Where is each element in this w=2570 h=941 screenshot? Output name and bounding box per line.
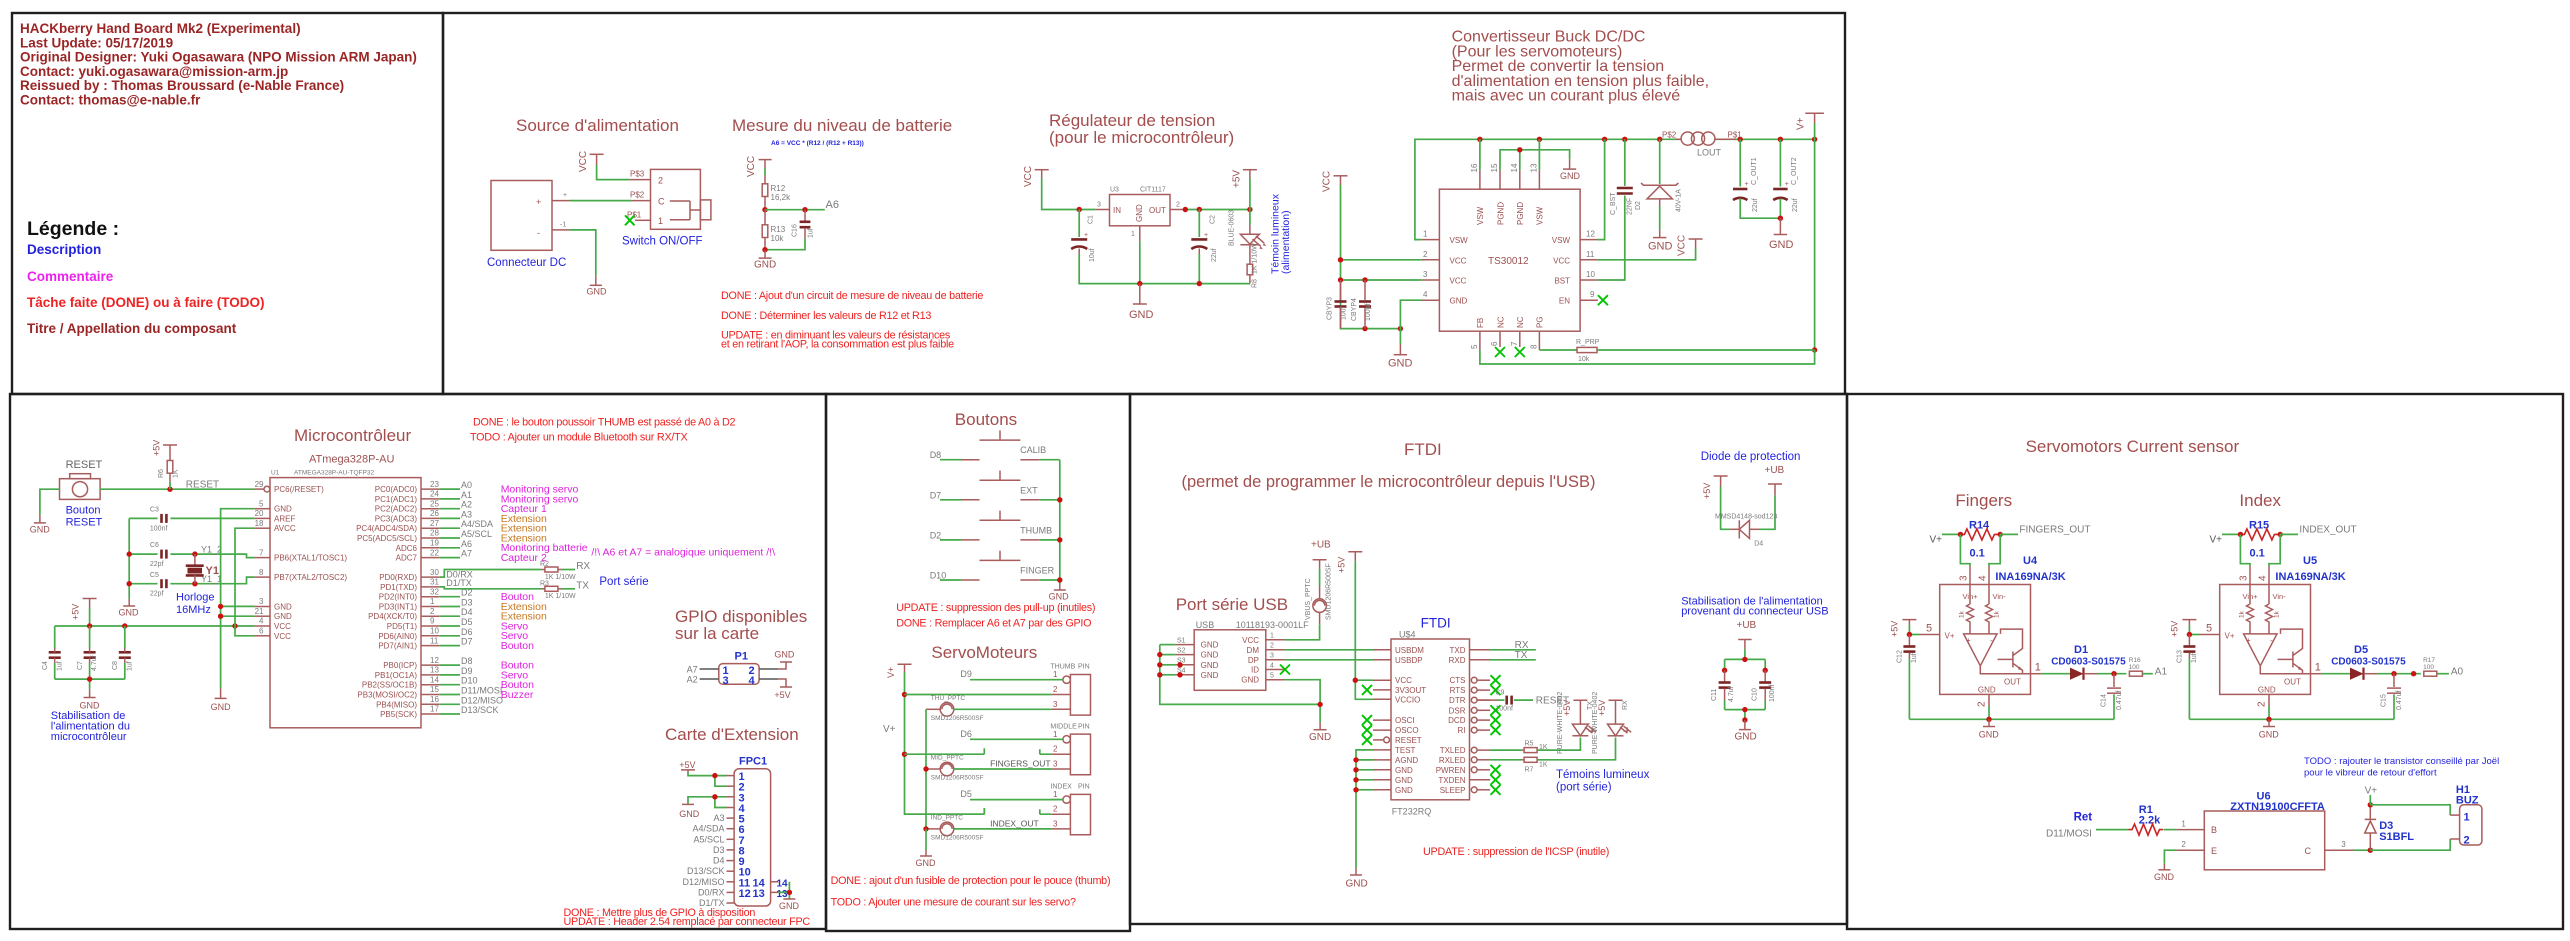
- svg-text:PC3(ADC3): PC3(ADC3): [375, 514, 418, 523]
- wire button to GND: [40, 489, 60, 514]
- legend: [27, 218, 265, 336]
- wire DP to USBDP: [1285, 659, 1373, 661]
- svg-text:0.47uf: 0.47uf: [2396, 690, 2403, 710]
- pin 1 USB: [1266, 639, 1285, 641]
- capacitor C_BST: [1598, 139, 1634, 280]
- svg-text:DONE : le bouton poussoir THUM: DONE : le bouton poussoir THUMB est pass…: [473, 417, 736, 429]
- wire THU_PPTC out: [953, 708, 1051, 710]
- svg-text:D4: D4: [461, 607, 473, 617]
- svg-text:+UB: +UB: [1765, 465, 1785, 476]
- svg-text:P$1: P$1: [1728, 131, 1743, 140]
- svg-text:28: 28: [430, 529, 439, 538]
- pin 9 PD5(T1) net D5: [421, 625, 439, 627]
- capacitor C11: [1711, 670, 1735, 709]
- svg-text:CTS: CTS: [1450, 676, 1466, 685]
- pin 20 AREF: [254, 517, 270, 519]
- X marks NC pins 6,7: [1495, 347, 1525, 357]
- svg-text:27: 27: [430, 519, 439, 528]
- X mark unconnected P$1: [625, 215, 635, 225]
- svg-text:DP: DP: [1248, 656, 1259, 665]
- fuse IND_PPTC: [926, 814, 984, 841]
- pin + of DC connector: [552, 200, 570, 202]
- svg-text:/!\ A6 et A7 = analogique uniq: /!\ A6 et A7 = analogique uniquement /!\: [591, 547, 775, 559]
- svg-text:Source d'alimentation: Source d'alimentation: [516, 116, 679, 135]
- svg-text:12: 12: [1586, 230, 1595, 239]
- svg-text:4: 4: [1978, 575, 1989, 581]
- wire diode D4: [1721, 487, 1775, 530]
- svg-text:E: E: [2211, 846, 2217, 856]
- svg-text:4.7uf: 4.7uf: [91, 655, 98, 671]
- resistor R8: [1247, 243, 1258, 288]
- svg-text:26: 26: [430, 509, 439, 518]
- resistor 1k left: [2247, 585, 2254, 634]
- svg-text:GND: GND: [1735, 732, 1757, 743]
- svg-text:14: 14: [777, 878, 789, 889]
- svg-text:EN: EN: [1559, 297, 1570, 306]
- svg-text:GND: GND: [1450, 297, 1468, 306]
- svg-text:GND: GND: [274, 603, 292, 612]
- diode D2: [1635, 139, 1683, 230]
- svg-text:-: -: [1990, 636, 1993, 645]
- svg-text:PIN: PIN: [1078, 723, 1090, 730]
- pin 13 FPC1: [727, 902, 735, 904]
- wire D8: [940, 459, 961, 461]
- pin 13 PB1(OC1A) net D9: [421, 674, 439, 676]
- pin 5 GND: [254, 508, 270, 510]
- wire PGND rail: [1500, 150, 1570, 170]
- pin USBDM FT232: [1373, 649, 1391, 651]
- svg-text:22NF: 22NF: [1627, 198, 1634, 215]
- svg-text:1uf: 1uf: [2191, 653, 2198, 663]
- svg-text:C9: C9: [1495, 689, 1504, 696]
- svg-text:PB3(MOSI/OC2): PB3(MOSI/OC2): [357, 691, 417, 700]
- transistor output stage: [2278, 629, 2303, 674]
- svg-text:pour le vibreur de retour d'ef: pour le vibreur de retour d'effort: [2304, 768, 2437, 779]
- pin 19 ADC6 net A6: [421, 547, 439, 549]
- svg-text:GND: GND: [2259, 730, 2280, 740]
- ground symbol mcu: [211, 688, 232, 712]
- X mark nc pin right: [1491, 785, 1501, 795]
- svg-text:INDEX_OUT: INDEX_OUT: [2299, 525, 2356, 536]
- svg-text:PD3(INT1): PD3(INT1): [379, 603, 418, 612]
- resistor R14 shunt: [1960, 520, 1999, 560]
- ground symbol crystal: [119, 599, 140, 618]
- wire FINGERS_OUT: [2000, 533, 2018, 535]
- svg-text:U$4: U$4: [1399, 630, 1416, 640]
- svg-text:OUT: OUT: [2004, 678, 2021, 687]
- wire shunt to pin4: [2269, 534, 2280, 566]
- svg-text:A7: A7: [687, 665, 698, 675]
- svg-text:Carte d'Extension: Carte d'Extension: [665, 725, 799, 744]
- svg-text:UPDATE : suppression des pull-: UPDATE : suppression des pull-up (inutil…: [896, 602, 1095, 614]
- pin 10 PD6(AIN0) net D6: [421, 635, 439, 637]
- svg-text:C4: C4: [42, 661, 49, 670]
- svg-text:Reissued by : Thomas Broussard: Reissued by : Thomas Broussard (e-Nable …: [20, 78, 344, 93]
- pin 22 ADC7 net A7: [421, 557, 439, 559]
- svg-text:+5V: +5V: [152, 440, 162, 456]
- svg-text:TODO : Ajouter un module Bluet: TODO : Ajouter un module Bluetooth sur R…: [470, 432, 687, 444]
- wire caps to gnd: [1725, 710, 1766, 720]
- pin 18 AVCC: [254, 527, 270, 529]
- ground symbol: [1979, 719, 2000, 739]
- svg-text:U4: U4: [2023, 555, 2038, 567]
- pin 16 PB4(MISO) net D12/MISO: [421, 703, 439, 705]
- svg-text:13: 13: [753, 888, 765, 900]
- svg-text:R17: R17: [2423, 657, 2435, 664]
- svg-text:PC1(ADC1): PC1(ADC1): [375, 495, 418, 504]
- pin 27 PC4(ADC4/SDA) net A4/SDA: [421, 527, 439, 529]
- svg-text:+: +: [1204, 232, 1208, 239]
- wire C1 to gnd rail: [1079, 254, 1250, 284]
- svg-text:AGND: AGND: [1395, 756, 1418, 765]
- svg-text:RESET: RESET: [66, 459, 103, 471]
- svg-text:PC2(ADC2): PC2(ADC2): [375, 505, 418, 514]
- svg-text:10118193-0001LF: 10118193-0001LF: [1236, 620, 1309, 630]
- connector USB 10118193-0001LF: [1194, 620, 1309, 690]
- +5V supply FPC: [679, 760, 695, 772]
- svg-text:10uf: 10uf: [1089, 248, 1096, 262]
- wire + to switch P$2: [570, 200, 632, 202]
- svg-text:BST: BST: [1554, 277, 1570, 286]
- wire VSW top rail: [1415, 139, 1815, 239]
- svg-text:D9: D9: [461, 666, 473, 676]
- svg-text:B: B: [2211, 825, 2217, 835]
- svg-text:2: 2: [658, 176, 663, 186]
- capacitor C15: [2380, 674, 2402, 720]
- svg-text:RESET: RESET: [186, 479, 219, 490]
- wire pin4 GND: [1400, 300, 1421, 344]
- pin 32 PD2(INT0) net D2: [421, 596, 439, 598]
- svg-text:C7: C7: [77, 661, 84, 670]
- pin 2 USB: [1266, 649, 1285, 651]
- svg-text:6: 6: [259, 627, 264, 636]
- svg-text:Y1: Y1: [206, 565, 219, 577]
- pin 24 PC1(ADC1) net A1: [421, 498, 439, 500]
- pin 1 B: [2176, 829, 2204, 831]
- pushbutton EXT: [961, 471, 1040, 500]
- ground symbol D2: [1648, 230, 1673, 252]
- svg-text:22: 22: [430, 548, 439, 557]
- svg-text:GND: GND: [779, 901, 800, 911]
- svg-text:15: 15: [1490, 163, 1499, 172]
- svg-text:OUT: OUT: [1149, 206, 1166, 215]
- svg-text:ATMEGA328P-AU-TQFP32: ATMEGA328P-AU-TQFP32: [294, 470, 374, 477]
- svg-text:GND: GND: [1135, 204, 1144, 222]
- regulator U3 CIT1117: [1110, 187, 1171, 226]
- svg-text:UPDATE : Header 2.54 remplacé: UPDATE : Header 2.54 remplacé par connec…: [564, 916, 811, 928]
- X mark nc pin: [1362, 735, 1372, 745]
- pin 21 GND: [254, 615, 270, 617]
- svg-text:VCC: VCC: [274, 622, 291, 631]
- svg-text:2: 2: [1270, 643, 1274, 650]
- svg-text:RXD: RXD: [1449, 656, 1466, 665]
- pin S4 USB: [1175, 674, 1194, 676]
- svg-text:V+: V+: [1930, 535, 1943, 546]
- wire THUMB to gnd rail: [1040, 539, 1060, 541]
- svg-text:7: 7: [1510, 341, 1519, 346]
- crystal Y1 16MHz: [176, 554, 219, 616]
- svg-text:1uf: 1uf: [1911, 653, 1918, 663]
- pin S1 USB: [1175, 644, 1194, 646]
- pin TEST FT232: [1373, 749, 1391, 751]
- svg-text:C6: C6: [150, 542, 159, 549]
- svg-text:GND: GND: [211, 702, 232, 712]
- svg-text:D3: D3: [461, 598, 473, 608]
- svg-text:VCC: VCC: [1450, 277, 1467, 286]
- svg-text:et en retirant l'AOP, la conso: et en retirant l'AOP, la consommation es…: [721, 339, 954, 351]
- svg-text:GND: GND: [774, 650, 795, 660]
- svg-text:17: 17: [430, 705, 439, 714]
- svg-text:1: 1: [430, 597, 435, 606]
- svg-text:(alimentation): (alimentation): [1280, 210, 1292, 274]
- capacitor C10: [1752, 670, 1776, 709]
- svg-text:GND: GND: [1049, 592, 1070, 602]
- svg-text:+5V: +5V: [1702, 483, 1712, 499]
- svg-text:Commentaire: Commentaire: [27, 269, 114, 284]
- svg-text:D1/TX: D1/TX: [446, 578, 472, 588]
- svg-text:A1: A1: [461, 490, 472, 500]
- svg-text:USBDP: USBDP: [1395, 656, 1423, 665]
- ground symbol U6: [2154, 864, 2175, 882]
- svg-text:22uf: 22uf: [1752, 198, 1759, 212]
- pin 9 FPC1: [727, 860, 735, 862]
- svg-text:TXDEN: TXDEN: [1438, 776, 1465, 785]
- svg-text:PD4(XCK/T0): PD4(XCK/T0): [368, 612, 417, 621]
- svg-text:Fingers: Fingers: [1955, 491, 2012, 510]
- svg-text:1k: 1k: [1959, 610, 1966, 618]
- svg-text:2: 2: [2257, 701, 2268, 707]
- X mark ID pin: [1280, 665, 1290, 675]
- svg-text:13: 13: [430, 666, 439, 675]
- svg-text:1K 1/10W: 1K 1/10W: [545, 574, 576, 581]
- wire diode out: [2098, 673, 2127, 675]
- svg-text:+5V: +5V: [1337, 557, 1347, 573]
- resistor 1k left: [1967, 585, 1974, 634]
- X mark nc pin right: [1491, 775, 1501, 785]
- svg-text:5: 5: [1926, 623, 1932, 635]
- wire to buzzer pin1: [2370, 805, 2450, 815]
- svg-text:3: 3: [259, 597, 264, 606]
- svg-text:1: 1: [2035, 662, 2041, 674]
- VCC supply symbol: [578, 151, 604, 172]
- pin 28 PC5(ADC5/SCL) net A5/SCL: [421, 537, 439, 539]
- svg-text:32: 32: [430, 587, 439, 596]
- svg-text:10: 10: [430, 627, 439, 636]
- wire opamp out: [2260, 666, 2310, 674]
- wire C5 to XTAL2 pin 8: [195, 577, 255, 584]
- svg-text:C15: C15: [2380, 694, 2387, 707]
- svg-text:1: 1: [1270, 633, 1274, 640]
- wire shunt to pin3: [1960, 534, 1970, 566]
- svg-text:INA169NA/3K: INA169NA/3K: [1995, 571, 2065, 583]
- pin 1 FPC1: [727, 775, 735, 777]
- svg-text:CIT1117: CIT1117: [1140, 187, 1166, 194]
- pin 23 PC0(ADC0) net A0: [421, 488, 439, 490]
- svg-text:22uf: 22uf: [1211, 248, 1218, 262]
- svg-text:GND: GND: [1979, 730, 2000, 740]
- svg-text:ADC7: ADC7: [396, 554, 418, 563]
- pin AGND FT232: [1373, 759, 1391, 761]
- svg-text:U5: U5: [2303, 555, 2317, 567]
- wire VBUS to VCC pin: [1285, 624, 1320, 640]
- svg-text:R_PRP: R_PRP: [1576, 339, 1600, 346]
- frame FTDI box: [1130, 394, 1847, 924]
- svg-text:Switch ON/OFF: Switch ON/OFF: [622, 236, 703, 248]
- pin 26 PC3(ADC3) net A3: [421, 517, 439, 519]
- svg-text:A5/SCL: A5/SCL: [693, 834, 724, 844]
- svg-text:VCC: VCC: [1242, 636, 1259, 645]
- svg-text:1: 1: [1423, 230, 1428, 239]
- frame title box: [12, 13, 443, 394]
- svg-text:+5V: +5V: [2170, 621, 2180, 637]
- V+ supply symbol: [1796, 113, 1824, 130]
- svg-text:4: 4: [2258, 575, 2269, 581]
- svg-text:INA169NA/3K: INA169NA/3K: [2275, 571, 2345, 583]
- svg-text:R6: R6: [158, 469, 165, 478]
- ground symbol FT232: [1346, 868, 1368, 890]
- svg-text:SMD1206R500SF: SMD1206R500SF: [931, 715, 984, 722]
- pin 12 FPC1: [727, 891, 735, 893]
- svg-text:SMD1206R500SF: SMD1206R500SF: [931, 775, 984, 782]
- svg-text:NC: NC: [1516, 316, 1525, 328]
- wire D9: [970, 679, 1063, 681]
- svg-text:C12: C12: [1896, 650, 1903, 663]
- +5V supply stab: [71, 599, 97, 621]
- +UB supply diode: [1765, 465, 1785, 495]
- IC U5 INA169NA/3K: [2220, 555, 2346, 694]
- wire D7: [940, 499, 961, 501]
- pin 3 IN: [1095, 209, 1109, 211]
- pin 12 PB0(ICP) net D8: [421, 664, 439, 666]
- svg-text:2: 2: [1053, 685, 1058, 694]
- pin 10 FPC1: [727, 870, 735, 872]
- svg-text:sur la carte: sur la carte: [675, 624, 759, 643]
- svg-text:C5: C5: [150, 572, 159, 579]
- pin OSCO FT232: [1373, 729, 1391, 731]
- resistor R_PRP: [1576, 339, 1815, 363]
- svg-text:23: 23: [430, 480, 439, 489]
- resistor R7: [1490, 757, 1548, 773]
- ground symbol: [754, 250, 776, 271]
- wire pin11 VCC: [1598, 248, 1696, 260]
- svg-text:3: 3: [2341, 840, 2346, 849]
- wire +5V to VCC/VCCIO: [1355, 562, 1373, 700]
- svg-text:TX: TX: [576, 580, 589, 591]
- pin 11 FPC1: [727, 881, 735, 883]
- wire GND pins 3,4: [688, 797, 727, 808]
- svg-text:+: +: [1966, 636, 1971, 645]
- svg-text:14: 14: [1510, 163, 1519, 172]
- resistor R2: [540, 561, 576, 581]
- svg-text:Port série USB: Port série USB: [1176, 595, 1288, 614]
- transistor output stage: [1998, 629, 2023, 674]
- svg-text:10: 10: [1586, 270, 1595, 279]
- pin 29 PC6(/RESET): [254, 488, 263, 490]
- svg-text:S2: S2: [1177, 647, 1186, 654]
- svg-text:VCC: VCC: [1023, 166, 1034, 187]
- wire GND USB pin5: [1285, 680, 1321, 722]
- pin 5 FPC1: [727, 817, 735, 819]
- svg-text:2: 2: [1423, 250, 1428, 259]
- wire to gnd: [925, 829, 927, 850]
- X mark nc pin right: [1491, 715, 1501, 725]
- svg-text:GND: GND: [754, 260, 776, 271]
- svg-text:A5/SCL: A5/SCL: [461, 529, 492, 539]
- pin 7 PB6(XTAL1/TOSC1): [254, 557, 270, 559]
- svg-text:Connecteur DC: Connecteur DC: [487, 257, 566, 269]
- frame current sensor box: [1847, 394, 2563, 929]
- svg-text:DTR: DTR: [1449, 696, 1466, 705]
- svg-text:C16: C16: [792, 224, 799, 237]
- resistor R13: [762, 210, 786, 250]
- svg-text:GND: GND: [1395, 776, 1413, 785]
- svg-text:1: 1: [2464, 812, 2470, 824]
- svg-text:D10: D10: [930, 571, 947, 581]
- svg-text:PC5(ADC5/SCL): PC5(ADC5/SCL): [357, 534, 417, 543]
- pin 6 FPC1: [727, 828, 735, 830]
- net D1/TX wire: [439, 587, 541, 589]
- svg-text:VCC: VCC: [1395, 676, 1412, 685]
- svg-text:THU_PPTC: THU_PPTC: [931, 695, 966, 702]
- wire V+ rail: [905, 672, 985, 814]
- junction: [1137, 281, 1142, 286]
- ground symbol stab: [80, 689, 101, 710]
- resistor R1: [2129, 804, 2164, 835]
- svg-text:+5V: +5V: [774, 690, 790, 700]
- svg-text:D7: D7: [461, 637, 473, 647]
- svg-text:R16: R16: [2129, 657, 2141, 664]
- wire VCC rail left: [1341, 185, 1422, 329]
- svg-text:ADC6: ADC6: [396, 544, 418, 553]
- svg-text:D4: D4: [713, 856, 725, 866]
- svg-text:11: 11: [1586, 250, 1595, 259]
- svg-text:Last Update: 05/17/2019: Last Update: 05/17/2019: [20, 35, 173, 50]
- svg-text:A4/SDA: A4/SDA: [461, 519, 493, 529]
- svg-text:PGND: PGND: [1516, 202, 1525, 225]
- +5V symbol P1: [774, 679, 792, 700]
- svg-text:Index: Index: [2239, 491, 2281, 510]
- wire R1 to base: [2164, 829, 2177, 831]
- svg-text:2: 2: [1176, 202, 1180, 209]
- resistor R15 shunt: [2240, 520, 2279, 560]
- svg-text:DSR: DSR: [1449, 706, 1466, 715]
- wire +5V pin5: [2189, 625, 2199, 635]
- svg-text:2: 2: [1053, 745, 1058, 754]
- svg-text:Servomotors Current sensor: Servomotors Current sensor: [2026, 437, 2240, 456]
- wire diode out: [2378, 673, 2421, 675]
- svg-text:P$2: P$2: [630, 191, 645, 200]
- svg-text:GND: GND: [119, 608, 140, 618]
- svg-text:Y1_2: Y1_2: [201, 544, 222, 554]
- X mark nc pin right: [1491, 725, 1501, 735]
- wire V+ to pin2 INDEX: [905, 808, 1052, 814]
- svg-text:R3: R3: [540, 580, 549, 587]
- VCC supply symbol: [746, 156, 772, 177]
- svg-text:0.1: 0.1: [2250, 548, 2265, 560]
- svg-text:8: 8: [1530, 344, 1539, 349]
- svg-text:RTS: RTS: [1450, 686, 1466, 695]
- svg-text:A6: A6: [826, 199, 839, 211]
- svg-text:Bouton: Bouton: [66, 505, 101, 517]
- svg-text:D10: D10: [461, 676, 478, 686]
- svg-text:A0: A0: [461, 480, 472, 490]
- svg-text:FT232RQ: FT232RQ: [1392, 807, 1432, 817]
- pin 30 PD0(RXD) net D0/RX: [421, 576, 439, 578]
- wire opamp out: [1980, 666, 2030, 674]
- svg-text:C2: C2: [1210, 215, 1217, 224]
- wire VSW pins 16,13: [1480, 139, 1540, 170]
- diode D4 MMSD4148: [1715, 514, 1777, 548]
